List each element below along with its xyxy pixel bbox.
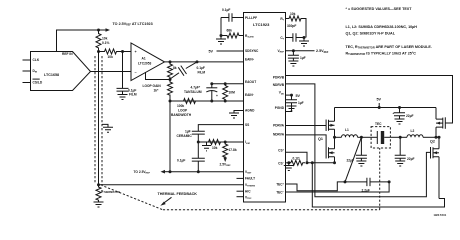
pin stub CLK — [23, 59, 31, 61]
capacitor 22uF (bridge input) — [393, 106, 414, 119]
capacitor 2.2uF (across TEC) — [345, 178, 389, 193]
ground (TEC+ cap) — [356, 161, 366, 166]
svg-text:AGND: AGND — [245, 109, 255, 113]
svg-text:NDRVA: NDRVA — [273, 132, 285, 136]
svg-text:17.8k: 17.8k — [229, 148, 237, 152]
svg-text:TO 2.5VREF AT LTC1923: TO 2.5VREF AT LTC1923 — [113, 22, 153, 27]
node tantalum top — [210, 82, 213, 85]
svg-text:EAOUT: EAOUT — [245, 80, 256, 84]
thermistor RTHERMISTOR — [96, 185, 120, 201]
wire PDRVA to Q1 PMOS gate — [286, 125, 327, 127]
op-amp A1 LTC2053 — [131, 43, 165, 81]
pin stub H/C — [237, 190, 244, 192]
svg-text:LOOP: LOOP — [178, 109, 188, 113]
wire VTHRM to LTC1923 — [99, 184, 244, 186]
node CS- / sense left — [287, 161, 290, 164]
wire 5V to SDSYNC — [209, 50, 244, 54]
capacitor 22uF (TEC- side) — [395, 137, 415, 161]
wire NDRVA to Q1 NMOS gate — [286, 135, 327, 147]
svg-text:A1: A1 — [142, 57, 146, 61]
svg-text:PDRVA: PDRVA — [273, 123, 285, 127]
inductor L2 — [400, 129, 439, 137]
svg-text:TANTALUM: TANTALUM — [184, 90, 202, 94]
svg-text:+: + — [216, 94, 218, 98]
svg-text:LTC2053: LTC2053 — [138, 62, 151, 66]
node RG/8k/1k junction — [169, 78, 172, 81]
resistor 68k (RSLEW) — [221, 29, 244, 39]
ground (RT/CT) — [299, 38, 309, 47]
svg-text:0.1%: 0.1% — [102, 41, 110, 45]
node 10M top — [224, 82, 227, 85]
node 0.1uF bottom — [197, 170, 200, 173]
dashed module tail up to TEC box — [379, 148, 381, 210]
svg-text:TEC, RTHERMISTOR ARE PART OF L: TEC, RTHERMISTOR ARE PART OF LASER MODUL… — [346, 45, 432, 50]
svg-text:+: + — [135, 50, 137, 54]
pin labels left side — [245, 16, 259, 200]
capacitor 0.1uF (VSET) — [177, 142, 205, 172]
wire A1 output to EAIN+ — [165, 61, 244, 63]
svg-text:FILM: FILM — [198, 70, 206, 74]
svg-text:LOOP GAIN: LOOP GAIN — [143, 84, 162, 88]
ground (VREF cap) — [288, 61, 298, 66]
dashed laser module boundary (left pair) — [94, 56, 96, 184]
DAC U2 LTC1658 — [31, 52, 91, 91]
svg-text:H/C: H/C — [245, 189, 251, 193]
transistor Q1 NMOS (bottom half) — [326, 137, 334, 163]
node RT/CT junction — [303, 36, 306, 39]
svg-text:PLLLPF: PLLLPF — [245, 16, 257, 20]
svg-text:1k*: 1k* — [154, 89, 160, 93]
svg-text:FAULT: FAULT — [245, 177, 255, 181]
svg-text:330pF: 330pF — [287, 24, 296, 28]
node 10k/17.8k junction — [224, 141, 227, 144]
wire PLLLPF/RSLEW left rail — [220, 18, 222, 36]
svg-text:L1, L2: SUMIDA CDRH6D28-100NC,: L1, L2: SUMIDA CDRH6D28-100NC, 10µH — [346, 25, 418, 29]
node Q2 drain / bridge rail — [435, 136, 438, 139]
svg-text:PDRVB: PDRVB — [273, 75, 285, 79]
capacitor 22uF (TEC+ side) — [347, 137, 367, 162]
ground (thermistor cable shield) — [102, 124, 113, 132]
inductor L1 — [335, 128, 372, 137]
capacitor 0.1uF FILM (across 8k, diagonal) — [170, 62, 205, 79]
svg-text:SDSYNC: SDSYNC — [245, 49, 259, 53]
svg-text:THERMAL FEEDBACK: THERMAL FEEDBACK — [158, 192, 198, 196]
wire TEC- sense to LTC1923 — [286, 182, 390, 192]
node TEC- (L2 side) — [399, 136, 402, 139]
pin stub VTEC — [237, 196, 244, 198]
capacitor 1uF (VREF) — [288, 51, 306, 61]
wire TEC right to L2 node — [390, 136, 400, 138]
wire TEC+ diagonal tap — [345, 137, 361, 182]
TEC element — [372, 131, 391, 144]
wire 1k/100k node down to VSET rail — [169, 101, 171, 172]
transistor Q2 NMOS — [431, 137, 440, 198]
svg-text:L1: L1 — [345, 128, 349, 132]
ground (VDD cap / PGND) — [286, 106, 297, 112]
resistor 10k (RT) — [286, 12, 307, 38]
svg-text:LTC1658: LTC1658 — [44, 73, 59, 77]
wire EAOUT — [212, 83, 244, 85]
pin stub CS/LD — [23, 82, 31, 84]
svg-text:CERAMIC: CERAMIC — [177, 134, 193, 138]
THERMAL FEEDBACK label and arrow — [158, 192, 198, 206]
node filter junction — [121, 50, 124, 53]
wire ILIM rail to LTC1923 — [198, 141, 243, 143]
resistor 1k* LOOP GAIN — [143, 80, 173, 102]
svg-text:+: + — [393, 111, 395, 115]
wire PDRVB to Q2 PMOS gate (outer route) — [286, 76, 453, 124]
node Q1 drain / bridge rail — [333, 136, 336, 139]
resistor 10k (ILIM divider) — [209, 140, 221, 151]
ground (input filter cap) — [118, 95, 128, 100]
svg-text:RTHERMISTOR: RTHERMISTOR — [101, 190, 120, 195]
wire VREF out — [286, 49, 329, 54]
pin labels right side — [273, 17, 285, 195]
node bridge (thermistor node) — [97, 50, 100, 53]
node 1k/100k junction — [169, 100, 172, 103]
capacitor 0.1uF (PLLLPF) — [221, 8, 244, 22]
resistor 100k LOOP BANDWIDTH — [171, 99, 196, 118]
svg-text:1µF: 1µF — [298, 101, 304, 105]
svg-text:CLK: CLK — [33, 58, 40, 62]
node tantalum bottom — [210, 100, 213, 103]
svg-text:RTHERMISTOR IS TYPICALLY 10kΩ: RTHERMISTOR IS TYPICALLY 10kΩ AT 25°C — [346, 52, 417, 57]
node sense right — [306, 161, 309, 164]
THERMAL FEEDBACK dashed path — [163, 209, 380, 211]
wire EAIN- — [170, 100, 244, 102]
wire REF pin up to 2.5VREF rail — [57, 30, 99, 52]
resistor 10k (input filter) — [99, 49, 123, 59]
svg-text:1923 TA01: 1923 TA01 — [434, 213, 447, 217]
svg-text:NDRVB: NDRVB — [273, 83, 285, 87]
wire CS- — [286, 162, 289, 164]
pin stub FAULT — [237, 177, 244, 179]
capacitor 1uF (VDD) — [286, 95, 304, 106]
ground (PLLLPF/RSLEW) — [216, 36, 226, 45]
resistor 10M — [223, 84, 235, 101]
wire sense to Q1 source — [307, 162, 335, 164]
node thermistor / VTHRM — [97, 183, 100, 186]
node ILIM rail left — [197, 141, 200, 144]
label 5V (bridge) — [377, 97, 382, 109]
svg-text:Q2: Q2 — [430, 140, 435, 144]
capacitor 4.7uF* TANTALUM — [184, 84, 218, 101]
svg-text:10M: 10M — [229, 91, 236, 95]
wire to op-amp + input — [123, 51, 132, 53]
svg-text:100k: 100k — [177, 104, 184, 108]
svg-text:Q1: Q1 — [318, 137, 323, 141]
wire CS+ — [286, 152, 308, 163]
node TEC+ sense — [344, 180, 347, 183]
svg-text:22µF: 22µF — [406, 114, 413, 118]
svg-text:L2: L2 — [411, 129, 415, 133]
wire NDRVB to Q2 NMOS gate (around-bottom route) — [286, 84, 431, 197]
transistor Q1 PMOS (top half) — [326, 108, 334, 138]
node REF rail junction — [97, 29, 100, 32]
wire arrow to 2.5VREF (down) — [224, 157, 226, 159]
svg-text:LTC1923: LTC1923 — [253, 22, 270, 27]
svg-text:5V: 5V — [377, 97, 382, 101]
node 10M bottom — [224, 100, 227, 103]
node ground-return tap — [311, 161, 314, 164]
node Q1 source/sense — [333, 161, 336, 164]
ground (ILIM divider) — [202, 142, 211, 151]
svg-text:CS/LD: CS/LD — [33, 81, 43, 85]
node RSLEW/ground junction — [220, 34, 223, 37]
node film cap top — [196, 60, 199, 63]
wire bridge top rail 5V — [335, 107, 437, 109]
ground (thermistor) — [94, 201, 104, 207]
svg-text:5V: 5V — [209, 50, 214, 54]
ground (TEC- cap) — [395, 161, 405, 166]
resistor 0.1 ohm (sense) — [289, 156, 305, 165]
ground (CS-) — [284, 163, 294, 171]
node TEC- sense — [388, 180, 391, 183]
pin stub DIN — [23, 70, 31, 72]
svg-text:8k: 8k — [173, 66, 177, 70]
svg-text:1µF: 1µF — [185, 130, 191, 134]
wire DAC output to op-amp - input — [91, 71, 132, 73]
svg-text:FILM: FILM — [129, 92, 137, 96]
node VSET rail left — [169, 170, 172, 173]
svg-text:−: − — [135, 70, 137, 74]
node VREF cap junction — [292, 49, 295, 52]
capacitor 0.1uF FILM (input filter) — [117, 52, 137, 97]
node 8k top — [169, 60, 172, 63]
svg-text:10k: 10k — [102, 37, 108, 41]
resistor 10k 0.1% (bridge top) — [96, 30, 110, 52]
svg-text:BANDWIDTH: BANDWIDTH — [171, 113, 192, 117]
svg-text:10k: 10k — [212, 146, 218, 150]
svg-text:10k: 10k — [108, 55, 114, 59]
resistor 17.8k — [223, 142, 237, 157]
ground (bridge input cap) — [395, 119, 405, 124]
wire RG stub of A1 — [146, 72, 171, 80]
svg-text:5V: 5V — [296, 94, 301, 98]
svg-text:10k: 10k — [290, 12, 296, 16]
svg-text:REF IN: REF IN — [62, 52, 73, 56]
wire TEC+ sense to LTC1923 — [286, 182, 346, 191]
transistor Q2 PMOS (mirrored) — [436, 108, 445, 138]
svg-text:SS: SS — [245, 123, 249, 127]
wire arrow TO 2.5VREF AT LTC1923 — [99, 29, 106, 31]
svg-text:0.1Ω: 0.1Ω — [293, 156, 301, 160]
wire ground return (bottom loop) — [312, 163, 444, 207]
svg-text:TEC: TEC — [375, 122, 382, 126]
svg-text:0.1µF: 0.1µF — [222, 8, 230, 12]
controller U1 LTC1923 — [244, 13, 286, 203]
svg-text:22µF: 22µF — [407, 157, 414, 161]
ground (AGND pin) — [229, 111, 244, 119]
capacitor 1uF CERAMIC — [177, 125, 244, 142]
wire arrow TO 2.5VREF (left) — [165, 171, 171, 173]
svg-text:PGND: PGND — [275, 106, 285, 110]
TEC module (dashed box) — [371, 122, 390, 148]
svg-text:4.7µF*: 4.7µF* — [191, 85, 201, 89]
node TEC+ (L1 side) — [360, 136, 363, 139]
svg-text:0.1µF: 0.1µF — [177, 158, 185, 162]
resistor 8k — [168, 62, 177, 80]
svg-text:Q1, Q2: Si9801DY N-P DUAL: Q1, Q2: Si9801DY N-P DUAL — [346, 32, 396, 36]
svg-text:* = SUGGESTED VALUES—SEE TEXT: * = SUGGESTED VALUES—SEE TEXT — [346, 7, 413, 11]
wire VDD 5V stub — [286, 94, 301, 98]
wire VSET rail to LTC1923 — [170, 171, 244, 173]
svg-text:1µF: 1µF — [300, 56, 306, 60]
node Q2 NMOS drain — [438, 136, 441, 139]
wire thermistor column — [98, 52, 100, 185]
capacitor 330pF (CT) — [286, 24, 305, 42]
svg-text:68k: 68k — [227, 29, 233, 33]
